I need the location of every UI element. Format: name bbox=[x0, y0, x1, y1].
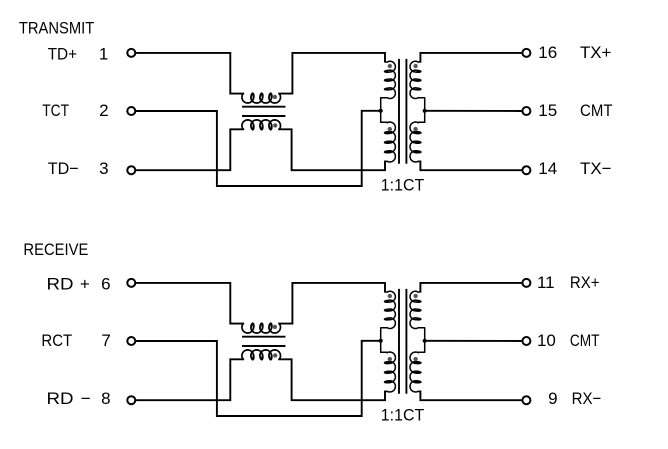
svg-text:8: 8 bbox=[101, 389, 110, 408]
primary center-tap junction bbox=[379, 339, 383, 343]
transformer TX T secondary winding bbox=[410, 61, 425, 162]
wire choke winding B to transformer primary bottom bbox=[279, 359, 385, 400]
common-mode choke RX CMC winding B (bottom coil) bbox=[242, 350, 281, 360]
pin 9 terminal circle bbox=[522, 396, 530, 404]
phase dot secondary upper bbox=[413, 294, 417, 298]
transformer TX T primary winding bbox=[381, 61, 396, 162]
pin 10 terminal circle bbox=[522, 337, 530, 345]
phase dot choke winding B bbox=[273, 123, 277, 127]
pin 16 terminal circle bbox=[522, 49, 530, 57]
pin 11 terminal circle bbox=[522, 279, 530, 287]
svg-text:3: 3 bbox=[99, 159, 108, 178]
wire secondary top to pin 11 bbox=[420, 283, 522, 292]
svg-text:9: 9 bbox=[548, 389, 557, 408]
secondary center-tap junction bbox=[423, 109, 427, 113]
phase dot primary upper bbox=[388, 64, 392, 68]
wire pin 2 to transformer primary center tap bbox=[135, 111, 380, 186]
pin 8 terminal circle bbox=[127, 396, 135, 404]
svg-text:RECEIVE: RECEIVE bbox=[23, 240, 88, 259]
svg-text:TRANSMIT: TRANSMIT bbox=[19, 19, 94, 38]
wire pin 8 to choke winding B bbox=[135, 359, 243, 400]
phase dot primary lower bbox=[388, 357, 392, 361]
wire secondary bottom to pin 9 bbox=[420, 392, 522, 401]
svg-text:+: + bbox=[80, 275, 90, 294]
svg-text:1: 1 bbox=[99, 45, 108, 64]
svg-text:16: 16 bbox=[538, 43, 557, 62]
phase dot secondary lower bbox=[413, 127, 417, 131]
svg-text:1:1CT: 1:1CT bbox=[381, 406, 424, 425]
pin 7 terminal circle bbox=[127, 337, 135, 345]
svg-text:CMT: CMT bbox=[580, 101, 613, 120]
phase dot primary upper bbox=[388, 294, 392, 298]
transformer RX T primary winding bbox=[381, 291, 396, 392]
wire choke winding A to transformer primary top bbox=[279, 283, 385, 324]
wire secondary center tap to pin 10 bbox=[425, 340, 523, 342]
common-mode choke TX CMC winding A (top coil) bbox=[242, 93, 281, 103]
wire pin 7 to transformer primary center tap bbox=[135, 341, 380, 416]
svg-text:TX−: TX− bbox=[580, 159, 612, 178]
wire pin 3 to choke winding B bbox=[135, 129, 243, 170]
svg-text:11: 11 bbox=[537, 273, 555, 292]
svg-text:1:1CT: 1:1CT bbox=[381, 176, 424, 195]
transformer RX T core lines bbox=[399, 290, 406, 393]
transformer RX T secondary winding bbox=[410, 291, 425, 392]
primary center-tap junction bbox=[379, 109, 383, 113]
svg-text:14: 14 bbox=[538, 159, 557, 178]
wire secondary center tap to pin 15 bbox=[425, 110, 523, 112]
phase dot primary lower bbox=[388, 127, 392, 131]
pin 3 terminal circle bbox=[127, 166, 135, 174]
svg-text:RX−: RX− bbox=[572, 389, 602, 408]
svg-text:TD−: TD− bbox=[48, 159, 79, 178]
choke RX CMC core lines bbox=[243, 337, 285, 346]
pin 15 terminal circle bbox=[522, 107, 530, 115]
wire secondary bottom to pin 14 bbox=[420, 162, 522, 171]
pin 1 terminal circle bbox=[127, 49, 135, 57]
svg-text:6: 6 bbox=[101, 275, 110, 294]
svg-text:TCT: TCT bbox=[42, 101, 69, 120]
svg-text:CMT: CMT bbox=[570, 331, 600, 350]
phase dot secondary upper bbox=[413, 64, 417, 68]
svg-text:RD: RD bbox=[47, 275, 74, 294]
wire choke winding B to transformer primary bottom bbox=[279, 129, 385, 170]
phase dot secondary lower bbox=[413, 357, 417, 361]
secondary center-tap junction bbox=[423, 339, 427, 343]
pin 14 terminal circle bbox=[522, 166, 530, 174]
svg-text:−: − bbox=[81, 389, 91, 408]
wire pin 6 to choke winding A bbox=[135, 283, 243, 324]
wire choke winding A to transformer primary top bbox=[279, 53, 385, 94]
svg-text:2: 2 bbox=[99, 101, 108, 120]
phase dot choke winding A bbox=[273, 95, 277, 99]
svg-text:RX+: RX+ bbox=[570, 273, 600, 292]
wire pin 1 to choke winding A bbox=[135, 53, 243, 94]
wire secondary top to pin 16 bbox=[420, 53, 522, 62]
choke TX CMC core lines bbox=[243, 107, 285, 116]
svg-text:RCT: RCT bbox=[41, 331, 72, 350]
phase dot choke winding B bbox=[273, 353, 277, 357]
common-mode choke TX CMC winding B (bottom coil) bbox=[242, 120, 281, 130]
svg-text:7: 7 bbox=[101, 331, 110, 350]
svg-text:15: 15 bbox=[538, 101, 557, 120]
svg-text:TX+: TX+ bbox=[580, 43, 611, 62]
pin 2 terminal circle bbox=[127, 107, 135, 115]
svg-text:RD: RD bbox=[47, 389, 74, 408]
phase dot choke winding A bbox=[273, 325, 277, 329]
transformer TX T core lines bbox=[399, 60, 406, 163]
svg-text:TD+: TD+ bbox=[48, 45, 77, 64]
common-mode choke RX CMC winding A (top coil) bbox=[242, 323, 281, 333]
svg-text:10: 10 bbox=[537, 331, 556, 350]
pin 6 terminal circle bbox=[127, 279, 135, 287]
